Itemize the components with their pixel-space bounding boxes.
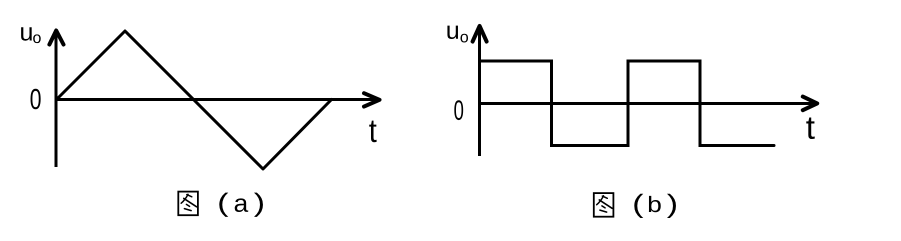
- caption (b) letter b: [649, 196, 661, 212]
- caption (a) close paren: [254, 193, 263, 217]
- panel (a) x-axis shaft: [56, 98, 376, 101]
- panel (b) y-axis arrowhead: [473, 26, 487, 42]
- panel (a) triangle wave: [57, 31, 332, 169]
- panel (a) y-axis arrowhead: [49, 31, 63, 45]
- panel (b) x-axis shaft: [480, 102, 815, 105]
- panel (b) subscript o: [460, 34, 468, 43]
- caption (a) letter a: [235, 198, 248, 212]
- panel (b) y-axis shaft: [478, 29, 481, 156]
- panel (b) x-axis arrowhead: [803, 97, 817, 111]
- panel (b) label u: [447, 26, 458, 39]
- panel (b) square wave: [481, 61, 774, 146]
- caption (a) glyph tu (drawn CJK): [178, 192, 198, 216]
- caption (b) close paren: [667, 194, 676, 218]
- panel (a) x-axis arrowhead: [364, 93, 380, 106]
- caption (a) open paren: [219, 193, 228, 217]
- panel (a) label 0: [31, 89, 41, 110]
- caption (b) open paren: [634, 194, 643, 218]
- panel (b) label 0: [454, 100, 463, 120]
- panel (a) subscript o: [33, 34, 41, 43]
- panel (a) label u: [21, 27, 32, 40]
- panel (a) y-axis shaft: [55, 34, 58, 167]
- caption (b) glyph tu (drawn CJK): [594, 193, 614, 217]
- panel (b) label t: [806, 117, 814, 139]
- panel (a) label t: [369, 121, 376, 143]
